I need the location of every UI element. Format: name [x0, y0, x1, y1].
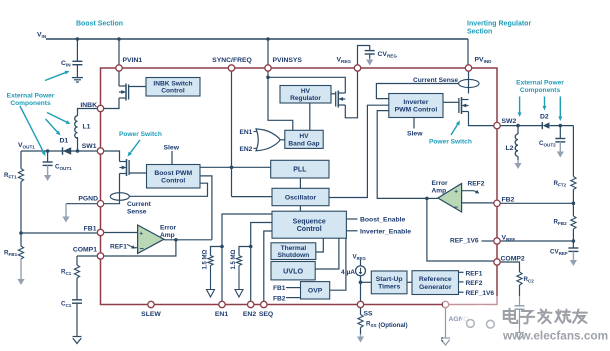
svg-text:Inverter_Enable: Inverter_Enable — [360, 228, 411, 235]
svg-text:EN2: EN2 — [243, 311, 256, 318]
wire FB2 to OVP — [286, 297, 301, 299]
resistor 1.5 MOhm (EN1) — [208, 256, 213, 266]
svg-text:VREG: VREG — [337, 57, 352, 65]
svg-text:+: + — [139, 231, 143, 238]
svg-text:Reference: Reference — [419, 276, 452, 283]
svg-text:Sense: Sense — [127, 209, 147, 216]
label Current Sense (boost) — [127, 201, 152, 216]
wire to COMP1 pin — [104, 240, 176, 256]
svg-text:RFB2: RFB2 — [554, 219, 568, 227]
node junction C_OUT1 — [46, 149, 50, 153]
ground arrow below R_SS — [357, 334, 364, 343]
svg-text:RFT2: RFT2 — [554, 180, 567, 188]
wire gate to INBK Switch Control — [129, 86, 146, 88]
svg-text:−: − — [454, 203, 459, 212]
svg-text:Amp: Amp — [432, 188, 447, 195]
wire Oscillator to Inverter PWM Control — [329, 105, 389, 197]
resistor R_FT2 — [571, 177, 576, 190]
wire C_C1 to ground — [76, 303, 78, 336]
resistor 1.5 MOhm (EN2) — [236, 256, 241, 266]
node junction V_IN / PVIN1 — [117, 37, 121, 41]
wire FB1 pin to error amp + — [104, 232, 138, 234]
current sense loop (inverter) — [459, 79, 479, 87]
wire SW1 pin to power FET drain — [104, 151, 120, 162]
svg-text:PVIN1: PVIN1 — [123, 57, 143, 64]
teal arrow to L1 — [47, 113, 71, 125]
svg-text:PVINSYS: PVINSYS — [273, 57, 303, 64]
teal arrow to D1 — [46, 119, 61, 136]
svg-text:Boost Section: Boost Section — [76, 21, 123, 28]
svg-text:VREF: VREF — [502, 235, 516, 243]
node junction SW1 / L1 / D1 — [76, 149, 80, 153]
svg-text:RFB1: RFB1 — [4, 250, 18, 258]
svg-text:SS: SS — [364, 311, 374, 318]
pin COMP2 — [494, 259, 500, 265]
svg-text:Inverter: Inverter — [403, 99, 428, 106]
svg-text:D2: D2 — [540, 114, 549, 121]
node junction PVINSYS internal — [266, 76, 270, 80]
pin AGND — [442, 301, 448, 307]
wire CV_REG to ground — [369, 54, 371, 59]
open arrow below EN2 resistor — [235, 266, 243, 298]
wire V_REG to current source — [360, 260, 362, 266]
block Thermal Shutdown — [271, 243, 316, 260]
wire C_IN bottom lead — [76, 65, 78, 78]
wire REF1 output stub — [459, 271, 464, 273]
wire output node down to R_FT2 — [572, 126, 574, 177]
wire current source to SS pin — [360, 276, 362, 302]
svg-text:Error: Error — [160, 225, 177, 232]
block HV Regulator — [280, 86, 331, 104]
teal arrow to inverter power switch — [451, 121, 460, 136]
resistor R_FT1 — [18, 169, 23, 182]
wire current sense to Inverter PWM Control — [376, 84, 458, 99]
wire Sequence Control to Thermal Shutdown — [316, 238, 324, 252]
ground arrow below CV_REF — [570, 251, 577, 266]
wire Boost PWM Control comp input — [200, 176, 212, 240]
PGND external ground wire — [66, 203, 97, 205]
svg-text:Boost_Enable: Boost_Enable — [360, 217, 406, 224]
node junction inverter error amp output — [425, 197, 429, 201]
ground arrow below C_OUT2 — [557, 142, 564, 158]
wire PVIN1 to INBK switch drain — [118, 71, 120, 86]
wire gate to HV Regulator block — [331, 93, 336, 95]
teal arrow to C_OUT1 — [20, 106, 46, 156]
pin COMP1 — [97, 253, 103, 259]
svg-text:VREG: VREG — [353, 253, 366, 261]
node junction C_OUT2 — [559, 124, 563, 128]
label External Power Components (left) — [7, 93, 55, 108]
ground arrow below CV_REG — [366, 59, 373, 66]
wire Inverter PWM Control to Slew label — [413, 118, 415, 129]
wire to Start-Up Timers — [361, 281, 372, 283]
svg-text:Regulator: Regulator — [290, 95, 321, 102]
svg-text:Current: Current — [127, 201, 152, 208]
pin INBK — [97, 105, 103, 111]
block Inverter PWM Control — [389, 94, 443, 118]
svg-text:www.elecfans.com: www.elecfans.com — [502, 329, 608, 343]
svg-text:Boost PWM: Boost PWM — [154, 170, 192, 177]
pin FB1 — [97, 229, 103, 235]
svg-text:Components: Components — [520, 87, 561, 94]
transistor HV regulator pass FET — [336, 91, 346, 108]
watermark text elecfans chinese (drawn strokes) — [504, 309, 587, 324]
svg-text:CVREG: CVREG — [378, 51, 398, 59]
svg-text:EN2: EN2 — [240, 146, 253, 153]
pin SLEW — [148, 301, 154, 307]
svg-text:HV: HV — [299, 133, 309, 140]
svg-text:Current Sense: Current Sense — [413, 77, 458, 84]
svg-text:INBK Switch: INBK Switch — [153, 81, 192, 88]
svg-text:FB1: FB1 — [84, 226, 97, 233]
svg-text:Control: Control — [161, 88, 185, 95]
block Start-Up Timers — [371, 271, 407, 294]
block UVLO — [271, 262, 315, 280]
transistor inverter power switch Q2 — [459, 97, 469, 114]
watermark background — [443, 296, 610, 351]
block PLL — [271, 160, 329, 178]
svg-text:EN1: EN1 — [215, 311, 228, 318]
wire Sequence Control to OVP — [330, 238, 346, 290]
block HV Band Gap — [285, 130, 323, 148]
svg-text:Control: Control — [161, 177, 185, 184]
pin EN1 — [219, 301, 225, 307]
OR gate U2 (EN1/EN2) — [254, 129, 281, 151]
svg-text:−: − — [140, 244, 145, 253]
svg-text:SYNC/FREQ: SYNC/FREQ — [212, 57, 252, 64]
wire V_REG pin to CV_REG — [358, 46, 370, 65]
svg-text:Generator: Generator — [419, 284, 452, 291]
wire L1 to INBK pin — [78, 109, 98, 116]
pin V_REG — [354, 65, 360, 71]
svg-text:Slew: Slew — [164, 145, 180, 152]
wire Oscillator to Sequence Control — [299, 206, 301, 212]
wire HV Regulator to HV Band Gap — [309, 103, 311, 130]
teal arrow to C_IN — [45, 71, 70, 81]
wire FB2 pin to divider — [500, 202, 573, 204]
wire REF_1V6 output stub — [459, 291, 464, 293]
pin SW1 — [97, 148, 103, 154]
wire COMP1 to R_C1 — [77, 255, 97, 257]
svg-text:COUT1: COUT1 — [55, 164, 72, 172]
svg-text:RFT1: RFT1 — [4, 172, 17, 180]
pin PVINSYS — [265, 65, 271, 71]
wire C_OUT2 top lead — [559, 126, 561, 139]
wire V_IN to PVINSYS — [267, 39, 269, 65]
capacitor C_IN — [72, 61, 82, 64]
svg-text:REF2: REF2 — [466, 280, 483, 287]
wire R_SS to ground — [360, 328, 362, 335]
svg-text:RC2: RC2 — [524, 276, 535, 284]
capacitor C_C2 — [515, 306, 525, 309]
wire L1 bottom lead — [77, 137, 79, 151]
node junction SYNC wire / PLL wire — [230, 166, 234, 170]
svg-text:Timers: Timers — [378, 284, 400, 291]
svg-text:RC1: RC1 — [61, 269, 72, 277]
wire PV_IND pin to inverter FET drain — [468, 71, 470, 93]
wire inverter FET source to SW2 pin — [469, 112, 494, 126]
IC package outline — [101, 68, 498, 305]
svg-text:RSS (Optional): RSS (Optional) — [366, 321, 408, 330]
svg-text:REF_1V6: REF_1V6 — [450, 238, 479, 245]
wire Boost PWM Control to PLL — [200, 166, 271, 168]
svg-text:L2: L2 — [506, 145, 514, 152]
wire AGND pin to ground — [445, 308, 447, 338]
ground below AGND — [441, 338, 450, 345]
node junction L2 — [516, 124, 520, 128]
wire C_OUT1 top lead — [47, 151, 49, 162]
svg-text:PGND: PGND — [78, 196, 98, 203]
wire SS pin to R_SS — [360, 308, 362, 315]
pin SS — [357, 301, 363, 307]
wire SW2 to D2 — [500, 125, 542, 127]
node junction FB1 divider — [19, 231, 23, 235]
svg-text:CC1: CC1 — [61, 301, 72, 309]
svg-text:UVLO: UVLO — [283, 266, 303, 275]
wire V_REF pin to CV_REF — [500, 240, 573, 242]
svg-text:CVREF: CVREF — [550, 249, 568, 257]
node junction EN2 pulldown tap — [249, 245, 253, 249]
transistor INBK switch — [119, 84, 129, 101]
wire V_OUT1 to SW1 pin — [21, 150, 97, 152]
watermark logo — [461, 305, 500, 344]
svg-text:1.5 MΩ: 1.5 MΩ — [203, 249, 209, 269]
wire R_C1 to C_C1 — [76, 278, 78, 300]
label Error Amp (boost) — [160, 225, 177, 240]
pin SW2 — [494, 122, 500, 128]
svg-text:REF1: REF1 — [110, 244, 127, 251]
diode D2 — [542, 122, 549, 129]
svg-text:L1: L1 — [83, 124, 91, 131]
op-amp inverter error amp — [438, 184, 462, 213]
svg-text:FB2: FB2 — [273, 295, 286, 302]
pin FB2 — [494, 200, 500, 206]
svg-text:Thermal: Thermal — [281, 245, 307, 252]
wire INBK switch source to INBK pin — [104, 98, 119, 109]
ground arrow below PGND — [62, 204, 69, 223]
wire Start-Up Timers to Reference Generator — [407, 281, 412, 283]
svg-text:FB1: FB1 — [273, 285, 286, 292]
svg-text:SW1: SW1 — [82, 143, 97, 150]
wire Inverter PWM Control comp input — [377, 111, 427, 199]
REF2 arrow from error amp + — [462, 190, 480, 194]
ground arrow below R_FB1 — [17, 259, 24, 285]
svg-text:Shutdown: Shutdown — [277, 252, 309, 259]
wire current sense to Boost PWM Control — [130, 183, 208, 196]
svg-text:VOUT1: VOUT1 — [18, 142, 35, 150]
teal arrow to L2 — [518, 97, 522, 118]
wire FB1 to OVP — [286, 287, 301, 289]
resistor R_C1 — [74, 265, 79, 278]
ground arrow below C_OUT1 — [44, 165, 51, 181]
wire V_IN to PVIN1 — [118, 39, 120, 65]
svg-text:Slew: Slew — [407, 131, 423, 138]
node junction EN1 pulldown tap — [220, 245, 224, 249]
block Oscillator — [272, 188, 329, 205]
REF1 arrow into error amp - — [127, 244, 138, 248]
svg-text:Error: Error — [432, 180, 449, 187]
svg-text:HV: HV — [301, 88, 311, 95]
ground below C_C1 — [73, 337, 82, 344]
svg-text:SW2: SW2 — [502, 118, 517, 125]
svg-text:SLEW: SLEW — [141, 311, 161, 318]
svg-text:4 µA: 4 µA — [341, 269, 355, 276]
open arrow below EN1 resistor — [207, 266, 215, 298]
svg-text:COMP1: COMP1 — [73, 247, 97, 254]
svg-text:PLL: PLL — [293, 167, 307, 174]
svg-text:CIN: CIN — [61, 60, 71, 68]
wire L2 top lead — [517, 126, 519, 134]
wire node to error amp tip — [427, 197, 438, 199]
wire C_IN top lead — [76, 39, 78, 61]
wire OR gate output to HV Band Gap — [280, 139, 285, 141]
node junction SS / Start-Up Timers — [359, 281, 363, 285]
wire PVINSYS to HV Band Gap — [268, 77, 293, 130]
capacitor CV_REF — [568, 248, 578, 251]
capacitor C_OUT1 — [43, 162, 53, 165]
wire Inverter_Enable stub — [346, 230, 357, 232]
teal arrow to D2 — [543, 97, 547, 111]
label External Power Components (right) — [516, 80, 564, 95]
svg-text:Power Switch: Power Switch — [429, 139, 472, 146]
svg-text:VIN: VIN — [37, 32, 47, 40]
ground below C_C2 — [515, 333, 524, 340]
pin V_REF — [494, 238, 500, 244]
wire D2 to output node — [549, 125, 573, 127]
svg-text:Components: Components — [10, 100, 51, 107]
svg-text:REF2: REF2 — [468, 180, 485, 187]
wire EN1 to Sequence Control — [222, 214, 272, 301]
pin PGND — [97, 201, 103, 207]
svg-text:PWM Control: PWM Control — [395, 107, 438, 114]
wire EN2 pulldown jog — [239, 247, 251, 256]
svg-text:Control: Control — [297, 226, 322, 233]
svg-text:EN1: EN1 — [240, 129, 253, 136]
block INBK Switch Control — [146, 78, 200, 97]
wire power FET source to PGND pin — [104, 174, 120, 204]
wire C_C2 to ground — [519, 309, 521, 332]
current source 4 uA — [356, 266, 366, 276]
svg-text:INBK: INBK — [80, 102, 97, 109]
capacitor CV_REG — [365, 51, 375, 54]
wire V_IN to PV_IND — [467, 39, 469, 65]
svg-text:PVIND: PVIND — [475, 57, 493, 65]
node junction error amp output / COMP1 — [174, 238, 178, 242]
label Inverting Regulator Section — [467, 21, 531, 36]
wire R_C2 to C_C2 — [519, 285, 521, 306]
wire error amp output to comp riser — [164, 239, 212, 241]
wire SYNC/FREQ vertical — [231, 71, 233, 196]
resistor R_SS — [358, 315, 363, 328]
wire V_OUT1 down to R_FT1 — [20, 151, 22, 169]
resistor R_FB2 — [571, 216, 576, 229]
svg-text:External Power: External Power — [516, 80, 564, 87]
svg-text:FB2: FB2 — [502, 196, 515, 203]
resistor R_FB1 — [18, 246, 23, 259]
svg-text:D1: D1 — [60, 138, 69, 145]
wire PVINSYS to HV regulator FET drain — [268, 77, 345, 93]
op-amp boost error amp — [138, 225, 164, 254]
svg-text:Amp: Amp — [160, 232, 175, 239]
svg-text:Oscillator: Oscillator — [285, 194, 317, 201]
svg-text:Inverting Regulator: Inverting Regulator — [467, 21, 531, 28]
svg-text:OVP: OVP — [308, 288, 323, 295]
svg-text:+: + — [454, 189, 458, 196]
svg-text:COMP2: COMP2 — [501, 256, 525, 263]
ground arrow below L2 — [514, 160, 521, 169]
pin SYNC/FREQ — [228, 65, 234, 71]
current sense loop (boost) — [110, 193, 129, 201]
svg-text:Band Gap: Band Gap — [288, 140, 319, 147]
node junction V_REF / CV_REF — [572, 239, 576, 243]
ground below C_IN — [72, 78, 83, 82]
svg-text:COUT2: COUT2 — [539, 140, 556, 148]
node junction V_IN / PVINSYS — [266, 37, 270, 41]
transistor boost power switch Q1 — [120, 159, 130, 176]
wire FB1 pin to divider — [21, 232, 97, 234]
svg-text:SEQ: SEQ — [259, 311, 273, 318]
wire gate to Inverter PWM Control — [443, 101, 459, 103]
wire error amp - to FB2 pin — [462, 202, 494, 204]
wire R_FT1 to R_FB1 — [20, 182, 22, 247]
wire PLL to Oscillator — [299, 178, 301, 188]
wire down to R_C1 — [76, 256, 78, 265]
wire Boost_Enable stub — [346, 218, 357, 220]
svg-text:Power Switch: Power Switch — [119, 131, 162, 138]
svg-text:Start-Up: Start-Up — [376, 276, 403, 283]
block Boost PWM Control — [147, 165, 201, 189]
diode D1 — [63, 147, 72, 155]
block Sequence Control — [272, 211, 346, 238]
svg-text:REF1: REF1 — [466, 270, 483, 277]
wire V_IN rail — [46, 38, 468, 40]
wire REF_1V6 to V_REF pin — [482, 240, 494, 242]
wire EN1 pulldown jog — [211, 247, 223, 256]
wire L2 to ground — [517, 156, 519, 160]
capacitor C_OUT2 — [555, 139, 565, 142]
wire COMP2 to R_C2 — [500, 262, 519, 272]
inductor L2 — [515, 134, 518, 156]
wire Sequence Control to UVLO — [315, 238, 339, 269]
block OVP — [301, 282, 330, 299]
pin EN2 — [248, 301, 254, 307]
wire SEQ to Sequence Control — [264, 231, 272, 301]
resistor R_C2 — [517, 272, 522, 285]
pin PVIN1 — [116, 65, 122, 71]
wire PVINSYS pin stub — [267, 71, 269, 77]
teal arrow to C_OUT2 — [558, 97, 562, 122]
svg-text:Sequence: Sequence — [293, 218, 326, 225]
wire to COMP2 pin — [427, 198, 494, 261]
capacitor C_C1 — [72, 300, 82, 303]
svg-text:Section: Section — [467, 29, 492, 36]
wire R_FB2 to CV_REF — [572, 229, 574, 248]
wire HV regulator output to V_REG pin — [345, 71, 357, 118]
wire EN2 to Sequence Control — [251, 223, 272, 302]
svg-text:1.5 MΩ: 1.5 MΩ — [231, 249, 237, 269]
wire gate to Boost PWM Control — [129, 172, 146, 174]
teal arrow to boost power switch — [128, 140, 141, 157]
wire REF2 output stub — [459, 281, 464, 283]
block Reference Generator — [412, 271, 459, 295]
node junction V_IN / C_IN — [76, 37, 80, 41]
label Error Amp (inverter) — [432, 180, 449, 195]
node junction FB2 divider — [572, 202, 576, 206]
wire R_FT2 to R_FB2 — [572, 190, 574, 217]
wire SYNC to Oscillator — [232, 196, 273, 198]
svg-text:External Power: External Power — [7, 93, 55, 100]
pin SEQ — [261, 301, 267, 307]
